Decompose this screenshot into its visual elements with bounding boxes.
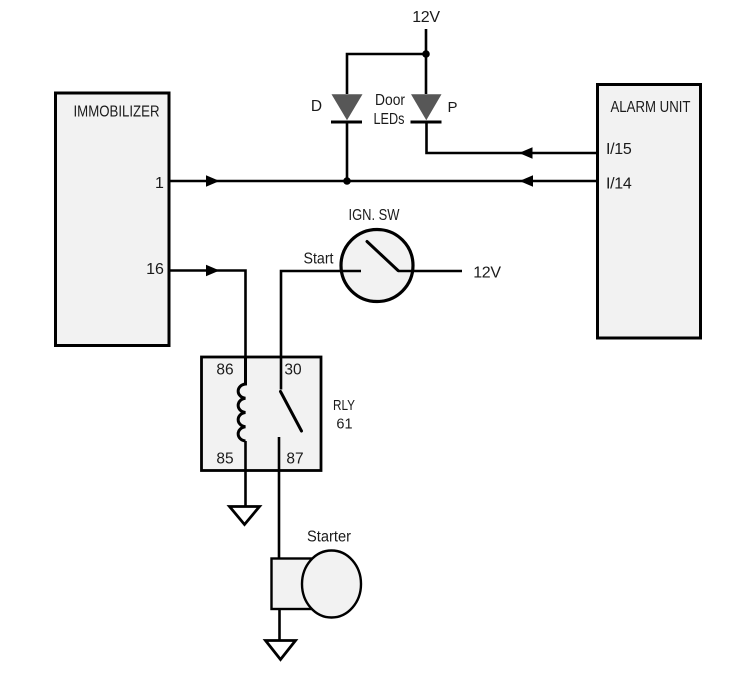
svg-text:86: 86 (216, 362, 233, 379)
junction dot at 12V branch (422, 50, 430, 58)
wire relay pin 87 down to starter (278, 437, 281, 559)
svg-text:Starter: Starter (307, 529, 351, 546)
svg-text:RLY: RLY (333, 398, 355, 414)
svg-text:12V: 12V (473, 265, 501, 282)
ground symbol under relay pin 85 (230, 507, 260, 525)
svg-text:D: D (311, 98, 322, 115)
wire immobilizer pin 1 to alarm I/14 (170, 180, 597, 183)
relay pin 30 lead inside relay (280, 357, 283, 390)
wire diode P cathode down then right to alarm I/15 (427, 122, 598, 153)
wire branch from junction to diode D (347, 54, 426, 94)
wire diode D cathode down to node on pin-1 line (346, 122, 349, 181)
svg-text:P: P (447, 99, 457, 116)
switch blade inside SW1 (367, 242, 398, 271)
wire ignition switch right terminal to 12V (398, 270, 462, 273)
svg-text:Start: Start (304, 251, 334, 268)
wire 12V supply vertical to diode P (425, 29, 428, 94)
relay box RLY 61 (202, 357, 322, 471)
svg-text:61: 61 (336, 417, 352, 433)
arrow on pin-16 wire (pointing right) (206, 265, 220, 276)
immobilizer box U1 (56, 93, 170, 346)
svg-text:I/14: I/14 (606, 176, 632, 193)
svg-text:85: 85 (216, 451, 233, 468)
wire ignition switch left terminal down to relay pin 30 (281, 271, 361, 357)
junction node at diode D / pin-1 line (343, 177, 351, 185)
wire starter to ground (278, 609, 281, 640)
arrow on pin-1 wire (pointing right) (206, 175, 220, 186)
relay switch blade (281, 392, 302, 432)
wire immobilizer pin 16 to relay pin 86 (170, 271, 246, 359)
svg-text:LEDs: LEDs (374, 111, 405, 128)
svg-text:30: 30 (284, 362, 302, 379)
arrow on I/14 wire (pointing left) (520, 175, 534, 186)
svg-text:ALARM UNIT: ALARM UNIT (611, 99, 691, 116)
svg-text:IGN. SW: IGN. SW (349, 207, 401, 224)
label Door LEDs (374, 92, 406, 128)
ground symbol under starter (266, 641, 296, 660)
ignition switch SW1 circle (341, 230, 413, 302)
starter motor M1 ellipse (302, 551, 361, 618)
arrow on I/15 wire (pointing left) (519, 147, 533, 158)
svg-text:1: 1 (155, 175, 164, 192)
alarm unit box U2 (598, 85, 701, 339)
diode P (door LED) (411, 94, 442, 122)
wire relay pin 85 to ground (244, 441, 247, 507)
starter motor M1 body (272, 559, 312, 610)
svg-text:12V: 12V (412, 9, 440, 26)
svg-text:87: 87 (286, 451, 303, 468)
svg-text:16: 16 (146, 261, 164, 278)
relay coil L1 (238, 357, 245, 441)
svg-text:I/15: I/15 (606, 141, 632, 158)
svg-text:Door: Door (375, 92, 406, 109)
label RLY 61 (333, 398, 355, 433)
svg-text:IMMOBILIZER: IMMOBILIZER (74, 104, 160, 121)
diode D (door LED) (331, 94, 363, 122)
